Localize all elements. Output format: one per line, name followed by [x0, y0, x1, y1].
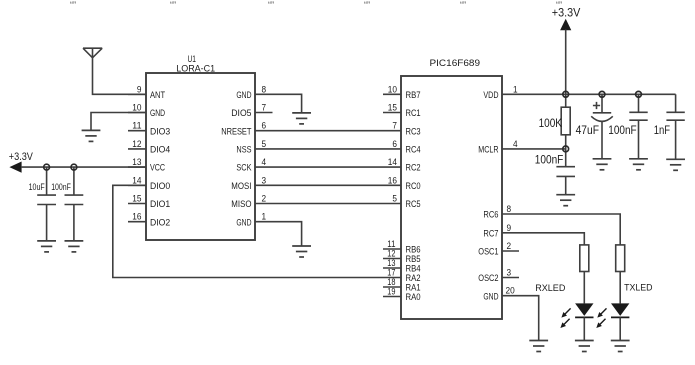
- svg-text:11: 11: [132, 121, 141, 132]
- svg-text:12: 12: [132, 139, 141, 150]
- svg-text:11: 11: [387, 239, 395, 249]
- svg-text:13: 13: [387, 258, 395, 268]
- svg-text:OSC1: OSC1: [478, 247, 498, 258]
- svg-text:TXLED: TXLED: [624, 282, 653, 293]
- svg-text:100nF: 100nF: [608, 124, 636, 137]
- svg-text:GND: GND: [236, 90, 251, 101]
- svg-text:RC2: RC2: [406, 163, 421, 174]
- svg-text:RA0: RA0: [406, 292, 421, 303]
- svg-text:19: 19: [387, 287, 395, 297]
- svg-text:“”: “”: [460, 0, 466, 10]
- svg-text:DIO2: DIO2: [150, 217, 170, 228]
- svg-text:“”: “”: [268, 0, 274, 10]
- svg-text:+3.3V: +3.3V: [552, 7, 581, 20]
- svg-text:DIO5: DIO5: [231, 108, 251, 119]
- svg-text:RC0: RC0: [406, 181, 421, 192]
- svg-text:“”: “”: [170, 0, 176, 10]
- svg-text:PIC16F689: PIC16F689: [430, 58, 481, 69]
- svg-text:10: 10: [388, 84, 397, 95]
- svg-text:DIO4: DIO4: [150, 145, 170, 156]
- svg-text:DIO0: DIO0: [150, 181, 170, 192]
- svg-text:+3.3V: +3.3V: [9, 151, 34, 163]
- svg-text:14: 14: [388, 157, 398, 168]
- svg-text:DIO3: DIO3: [150, 126, 170, 137]
- svg-text:“”: “”: [364, 0, 370, 10]
- svg-text:RC5: RC5: [406, 199, 421, 210]
- svg-text:MCLR: MCLR: [478, 145, 498, 156]
- svg-text:RB7: RB7: [406, 90, 421, 101]
- svg-text:RC1: RC1: [406, 108, 421, 119]
- svg-text:100nF: 100nF: [535, 153, 564, 166]
- svg-text:GND: GND: [236, 217, 251, 228]
- svg-text:NRESET: NRESET: [221, 126, 251, 137]
- svg-text:“”: “”: [70, 0, 76, 10]
- svg-text:ANT: ANT: [150, 90, 165, 101]
- svg-text:100nF: 100nF: [51, 182, 71, 192]
- svg-text:DIO1: DIO1: [150, 199, 170, 210]
- svg-text:VCC: VCC: [150, 163, 165, 174]
- svg-text:5: 5: [392, 194, 397, 205]
- svg-text:NSS: NSS: [236, 145, 251, 156]
- svg-text:RC4: RC4: [406, 145, 421, 156]
- svg-text:10uF: 10uF: [29, 182, 46, 192]
- svg-text:17: 17: [387, 268, 395, 278]
- svg-text:7: 7: [392, 121, 397, 132]
- svg-text:OSC2: OSC2: [478, 273, 498, 284]
- svg-text:MOSI: MOSI: [231, 181, 251, 192]
- svg-text:12: 12: [387, 249, 395, 259]
- svg-text:6: 6: [392, 139, 397, 150]
- svg-text:RC3: RC3: [406, 126, 421, 137]
- svg-text:18: 18: [387, 277, 395, 287]
- svg-text:GND: GND: [483, 291, 498, 302]
- svg-text:RC7: RC7: [483, 228, 498, 239]
- svg-text:MISO: MISO: [231, 199, 251, 210]
- svg-text:15: 15: [388, 103, 397, 114]
- svg-text:RXLED: RXLED: [535, 282, 565, 293]
- svg-text:LORA-C1: LORA-C1: [176, 64, 215, 75]
- svg-text:47uF: 47uF: [576, 124, 599, 137]
- svg-text:15: 15: [132, 194, 141, 205]
- svg-text:16: 16: [388, 175, 397, 186]
- svg-text:16: 16: [132, 212, 141, 223]
- svg-text:RC6: RC6: [483, 210, 498, 221]
- svg-text:100K: 100K: [539, 117, 563, 130]
- svg-text:GND: GND: [150, 108, 165, 119]
- svg-text:1nF: 1nF: [654, 124, 670, 137]
- svg-text:SCK: SCK: [236, 163, 252, 174]
- svg-text:VDD: VDD: [483, 90, 498, 101]
